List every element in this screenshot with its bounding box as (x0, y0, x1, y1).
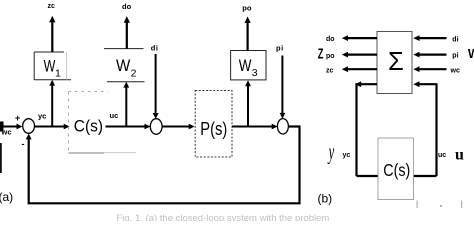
wire do output of Sigma (342, 35, 377, 41)
svg-text:do: do (122, 2, 132, 11)
svg-text:po: po (326, 53, 335, 60)
svg-text:C(s): C(s) (74, 117, 103, 136)
svg-text:po: po (242, 4, 252, 13)
svg-text:uc: uc (110, 111, 119, 120)
wire y from Sigma down to C(s) (355, 81, 379, 176)
svg-text:Σ: Σ (388, 48, 404, 76)
svg-text:di: di (452, 37, 458, 44)
svg-text:+: + (15, 113, 20, 123)
svg-text:3: 3 (252, 67, 258, 79)
block Sigma generalized plant (377, 32, 412, 94)
svg-text:Fig. 1. (a) the closed-loop s: Fig. 1. (a) the closed-loop system with … (117, 213, 330, 221)
svg-text:W: W (239, 57, 252, 76)
svg-text:do: do (326, 36, 335, 43)
scan artifact left edge streak (0, 143, 2, 173)
wire feedback loop from S3 output around to S1 (26, 127, 300, 204)
svg-text:W: W (468, 47, 474, 61)
svg-text:y: y (328, 139, 335, 164)
wire di input of Sigma (413, 35, 446, 41)
wire P(s) to sum S3 (232, 124, 278, 130)
svg-text:u: u (455, 147, 464, 164)
svg-text:W: W (116, 56, 131, 75)
svg-text:pi: pi (276, 44, 284, 53)
svg-text:zc: zc (48, 3, 56, 10)
wire C(s) to sum S2 (106, 124, 151, 130)
svg-text:uc: uc (438, 152, 446, 159)
svg-text:W: W (44, 58, 56, 76)
wire u from C(s) up into Sigma (413, 81, 436, 176)
svg-text:Z: Z (318, 45, 324, 62)
wire po output arrow (245, 16, 251, 50)
block W3 (231, 51, 266, 80)
svg-text:C(s): C(s) (383, 160, 410, 180)
wire do output arrow (124, 16, 130, 49)
wire S1 to C(s) (35, 124, 70, 130)
wire pi disturbance into S3 (280, 56, 286, 119)
svg-text:zc: zc (326, 68, 334, 75)
summing junction S3 (277, 119, 288, 134)
svg-text:di: di (151, 44, 159, 53)
wire wc input of Sigma (413, 66, 446, 72)
block W1 (34, 52, 71, 80)
dashed controller boundary box (69, 92, 137, 154)
svg-text:-: - (22, 139, 25, 149)
block P(s) (195, 91, 232, 158)
wire di disturbance into S2 (153, 54, 159, 119)
svg-text:(b): (b) (318, 192, 333, 206)
svg-text:wc: wc (450, 68, 460, 75)
caption Fig 1 faint (117, 213, 330, 224)
faint marks right of caption (417, 201, 463, 209)
svg-text:1: 1 (55, 67, 61, 79)
wire pi input of Sigma (413, 52, 446, 58)
wire branch up to W1 (49, 80, 55, 127)
svg-text:yc: yc (343, 152, 351, 159)
wire zc output of Sigma (342, 66, 377, 72)
svg-text:2: 2 (131, 68, 137, 80)
wire wc input into sum S1 (0, 124, 22, 130)
wire branch up to W2 (123, 82, 129, 127)
svg-text:pi: pi (452, 53, 458, 60)
wire zc output arrow (49, 16, 55, 52)
wire S2 to P(s) (162, 124, 195, 130)
wire po output of Sigma (342, 52, 377, 58)
svg-text:P(s): P(s) (200, 118, 227, 139)
summing junction S2 (150, 119, 162, 135)
wire branch up to W3 (245, 80, 251, 127)
summing junction S1 (23, 119, 35, 134)
block C(s) of diagram b (378, 138, 414, 200)
svg-text:yc: yc (38, 112, 46, 121)
block W2 (104, 49, 145, 82)
scan artifact left edge blob (0, 122, 4, 132)
svg-text:(a): (a) (0, 190, 13, 204)
